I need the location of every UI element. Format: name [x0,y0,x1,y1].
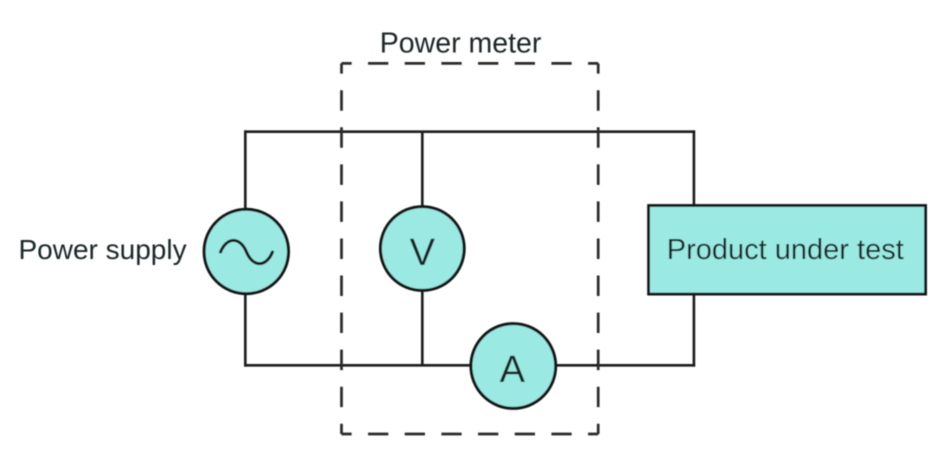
wire top horizontal [244,130,695,133]
AC sine wave symbol [221,240,273,263]
svg-text:A: A [500,349,526,391]
wire right vertical upper (top wire to product) [693,130,696,206]
wire right vertical lower (product to bottom wire) [693,294,696,367]
wire left vertical upper (supply to top wire) [244,130,247,209]
svg-text:Power supply: Power supply [19,234,187,265]
wire left vertical lower (supply to bottom wire) [244,294,247,367]
wire voltmeter upper (top wire to V) [421,132,424,207]
wire voltmeter lower (V to bottom wire) [421,290,424,365]
product under test block [649,206,926,295]
wire bottom horizontal right (ammeter to right leg) [555,364,695,367]
voltmeter V circle [380,207,464,291]
svg-text:V: V [410,232,436,274]
AC power supply source circle [204,209,288,293]
svg-text:Product under test: Product under test [667,234,904,266]
ammeter A circle [471,324,556,409]
svg-text:Power meter: Power meter [380,28,542,60]
wire bottom horizontal left (to ammeter) [244,364,471,367]
power meter dashed boundary box [342,63,599,434]
